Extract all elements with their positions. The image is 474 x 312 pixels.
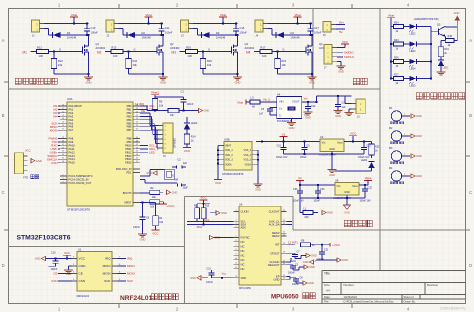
svg-text:R22: R22 (375, 145, 380, 148)
svg-text:10: 10 (235, 258, 237, 260)
svg-text:5V+: 5V+ (339, 21, 344, 25)
svg-text:C33: C33 (320, 188, 325, 191)
header J6b 4pin swd (324, 45, 332, 65)
ground arrow (crystal) (153, 171, 157, 175)
svg-text:Vbat: Vbat (145, 13, 152, 17)
svg-text:C1: C1 (181, 90, 185, 94)
svg-text:IRQ: IRQ (105, 257, 111, 261)
section label dianyuan dianlu (344, 220, 350, 226)
svg-text:R12: R12 (37, 45, 42, 49)
svg-text:VDD_3: VDD_3 (225, 159, 233, 162)
svg-text:GND: GND (146, 171, 152, 175)
svg-text:1: 1 (235, 210, 236, 212)
svg-text:PB6: PB6 (127, 125, 132, 129)
svg-text:GND: GND (86, 80, 92, 84)
connector J4 (255, 20, 263, 32)
svg-text:VDDA: VDDA (225, 163, 232, 166)
svg-text:R23: R23 (394, 39, 399, 42)
net label 5V+ (336, 24, 345, 26)
svg-text:M1: M1 (23, 50, 28, 54)
svg-text:1uF: 1uF (259, 113, 264, 116)
wire v1 rail (256, 141, 320, 143)
svg-text:G: G (134, 48, 136, 52)
ground (mpu fsync) (227, 237, 234, 239)
svg-text:SCL: SCL (204, 218, 210, 222)
svg-text:PA14: PA14 (69, 157, 76, 161)
svg-text:GND: GND (329, 148, 335, 151)
svg-text:13: 13 (62, 115, 64, 117)
svg-text:PA9: PA9 (69, 140, 74, 144)
svg-text:VCC: VCC (200, 196, 206, 200)
svg-text:GND: GND (140, 237, 146, 241)
resistor R18 (445, 38, 454, 42)
svg-text:PB4: PB4 (127, 118, 132, 122)
svg-text:9: 9 (235, 254, 236, 256)
net label SWDIO (337, 51, 343, 53)
svg-text:29: 29 (62, 137, 64, 139)
capacitor C32 100uF (364, 185, 366, 189)
svg-text:RESV: RESV (272, 234, 280, 238)
svg-text:U4: U4 (277, 93, 281, 97)
resistor R10 pullup (201, 208, 206, 219)
svg-text:BOOT0: BOOT0 (123, 191, 132, 195)
svg-text:34: 34 (62, 154, 64, 156)
svg-text:GND: GND (204, 109, 210, 113)
svg-text:1uF: 1uF (342, 106, 347, 109)
ground (j3) (349, 108, 352, 110)
svg-text:VCC: VCC (64, 251, 70, 255)
svg-text:R24: R24 (394, 21, 399, 24)
svg-text:U1: U1 (78, 247, 82, 251)
svg-text:14: 14 (283, 278, 285, 280)
section label zhishideng qudong dianlu (416, 93, 422, 99)
svg-text:M4: M4 (53, 115, 57, 119)
net label CE (mcu) (140, 112, 148, 114)
svg-text:22: 22 (283, 223, 285, 225)
svg-text:GND: GND (416, 114, 422, 118)
svg-text:13: 13 (235, 276, 237, 278)
svg-text:VDD_2: VDD_2 (225, 154, 233, 157)
svg-text:GND: GND (79, 264, 87, 268)
svg-text:PB7: PB7 (127, 128, 132, 132)
svg-text:5V-: 5V- (339, 30, 343, 34)
svg-text:11: 11 (235, 263, 237, 265)
wire gate (105, 51, 111, 53)
ground arrow (hole M1) (411, 114, 415, 118)
svg-text:MPU6050: MPU6050 (271, 294, 299, 301)
svg-text:C-: C- (279, 115, 282, 118)
mcu pin BOOT0 (133, 192, 140, 194)
svg-text:GND: GND (221, 211, 227, 215)
svg-text:V1: V1 (298, 176, 302, 180)
svg-text:CLKIN: CLKIN (241, 210, 249, 214)
svg-text:D3: D3 (216, 31, 220, 35)
mcu left pins PA8-PA15 (60, 138, 67, 140)
capacitor C10 100nF (86, 24, 88, 29)
nrf right pins (112, 258, 118, 260)
wire emitter (444, 37, 446, 41)
svg-text:FTD: FTD (23, 177, 28, 180)
svg-text:PC15-OSC32_OUT: PC15-OSC32_OUT (69, 181, 92, 185)
svg-text:PC14-OSC32_IN: PC14-OSC32_IN (69, 178, 89, 182)
svg-text:VDD_1: VDD_1 (225, 149, 233, 152)
svg-text:100: 100 (113, 54, 118, 58)
resistor R22 (371, 142, 373, 145)
svg-text:PB13: PB13 (125, 154, 132, 158)
svg-text:50: 50 (136, 154, 138, 156)
resistor R11 10k (128, 52, 130, 59)
svg-text:G: G (283, 48, 285, 52)
ground (ep) (295, 281, 297, 283)
svg-text:PA1: PA1 (69, 107, 74, 111)
ground (led1) (437, 71, 446, 73)
svg-text:PB5: PB5 (127, 121, 132, 125)
ground arrow (hole M2) (411, 134, 415, 138)
resistor R23 1k (390, 43, 392, 45)
svg-text:24: 24 (283, 210, 285, 212)
svg-text:D: D (2, 263, 5, 268)
mosfet Q3 AO3402 (237, 35, 239, 46)
svg-text:VCC: VCC (25, 148, 31, 152)
svg-text:INT: INT (275, 243, 280, 247)
svg-text:GPS06C: GPS06C (173, 138, 177, 148)
svg-text:Size: Size (324, 283, 330, 287)
svg-text:30: 30 (62, 140, 64, 142)
nrf right net labels (118, 258, 127, 260)
svg-text:R18: R18 (448, 35, 453, 38)
capacitor C11 100nF (161, 24, 163, 29)
wire source to ground (203, 73, 238, 75)
svg-text:CSDN @Nihil-Py: CSDN @Nihil-Py (440, 306, 466, 310)
svg-text:GND: GND (329, 173, 335, 177)
svg-text:GND: GND (305, 115, 311, 119)
svg-text:PA2: PA2 (69, 111, 74, 115)
wire gps reg rail (300, 184, 335, 186)
svg-text:GND: GND (344, 191, 350, 194)
svg-text:7: 7 (235, 245, 236, 247)
svg-text:PD0-OSC_IN: PD0-OSC_IN (116, 167, 132, 171)
ground port (row2) (346, 198, 348, 205)
capacitor C3 (177, 184, 179, 187)
svg-text:R26: R26 (394, 56, 399, 59)
wire gnd row1 (284, 153, 365, 155)
svg-text:4pF: 4pF (183, 162, 188, 165)
svg-text:100uF 16V: 100uF 16V (293, 201, 305, 203)
svg-text:C32: C32 (368, 186, 373, 189)
svg-text:B: B (469, 113, 472, 118)
wire Vbat rail (44, 23, 89, 25)
svg-text:PA10: PA10 (69, 143, 76, 147)
resistor R6 10k (152, 99, 158, 110)
svg-text:PB10: PB10 (125, 143, 132, 147)
diode D3 1N4148 (201, 32, 203, 38)
svg-text:File:: File: (324, 300, 329, 304)
svg-text:MISO: MISO (103, 264, 112, 268)
svg-text:GND: GND (454, 11, 460, 15)
wire Vbat rail (119, 23, 164, 25)
resistor R8 (301, 243, 311, 247)
mpu CPOUT cap C7 (287, 252, 296, 254)
svg-text:20: 20 (136, 111, 138, 113)
svg-text:IRQ: IRQ (127, 257, 133, 261)
svg-text:GND: GND (309, 80, 315, 84)
capacitor C33 100nF (317, 185, 319, 191)
ground arrow (hole M3) (411, 154, 415, 158)
svg-text:R16: R16 (186, 45, 191, 49)
section partition lines (9, 88, 381, 90)
svg-text:R13: R13 (112, 45, 117, 49)
svg-text:SWDIO: SWDIO (344, 50, 354, 54)
svg-text:1N4148: 1N4148 (291, 36, 301, 40)
svg-text:100uF: 100uF (300, 157, 307, 159)
svg-text:R10: R10 (58, 59, 63, 63)
svg-text:REGOUT: REGOUT (268, 263, 280, 267)
svg-text:Vin: Vin (337, 184, 341, 188)
resistor R21 10k (277, 52, 279, 59)
resistor R24 1k (391, 26, 394, 28)
svg-text:NC: NC (241, 258, 245, 262)
svg-text:PA7: PA7 (69, 128, 74, 132)
svg-text:Vgps: Vgps (365, 176, 372, 180)
svg-text:8M: 8M (175, 178, 178, 181)
mpu6050 body U6 (239, 206, 281, 285)
svg-text:VSSA: VSSA (245, 163, 252, 166)
svg-text:PA5: PA5 (69, 121, 74, 125)
svg-text:R14: R14 (191, 134, 196, 138)
svg-text:+VCC: +VCC (332, 243, 341, 247)
svg-text:GND: GND (235, 80, 241, 84)
svg-text:PA13: PA13 (69, 154, 76, 158)
wire gate (254, 51, 260, 53)
svg-text:CE: CE (141, 109, 145, 113)
connector J3 (181, 20, 189, 32)
svg-text:GND: GND (309, 265, 315, 269)
capacitor C14 (335, 104, 341, 106)
svg-text:GND: GND (160, 80, 166, 84)
svg-text:D1: D1 (67, 31, 71, 35)
svg-text:LED: LED (149, 151, 156, 155)
svg-text:35: 35 (62, 158, 64, 160)
resistor R12 100 (37, 50, 49, 54)
svg-text:R6: R6 (159, 99, 163, 103)
svg-text:D2: D2 (142, 31, 146, 35)
svg-text:LED4: LED4 (361, 159, 368, 162)
u3b right pins (252, 149, 258, 151)
svg-text:LED6(M4BT3733LT00): LED6(M4BT3733LT00) (414, 18, 439, 21)
svg-text:Drawn By:: Drawn By: (404, 300, 416, 304)
svg-text:CE: CE (53, 272, 57, 276)
svg-text:LED3: LED3 (410, 50, 417, 53)
svg-text:100nF: 100nF (51, 268, 59, 271)
svg-text:GND: GND (172, 191, 178, 195)
svg-text:Q3: Q3 (245, 42, 249, 46)
resistor R27 1k (390, 77, 392, 79)
led LED2 (410, 24, 417, 29)
svg-text:AD0: AD0 (241, 225, 247, 229)
svg-text:100: 100 (188, 54, 193, 58)
svg-text:100nF: 100nF (165, 31, 173, 35)
nrf left pins (72, 258, 78, 260)
svg-text:A: A (2, 38, 5, 43)
svg-text:10/26/2022: 10/26/2022 (344, 295, 358, 299)
ground (motor driver) (308, 76, 317, 78)
svg-text:SWCLK: SWCLK (344, 55, 354, 59)
svg-text:100: 100 (262, 54, 267, 58)
svg-text:R11: R11 (133, 59, 138, 63)
svg-text:10k: 10k (133, 63, 138, 67)
svg-text:PB0: PB0 (127, 104, 132, 108)
connector J2 (106, 20, 114, 32)
led LED3 (410, 41, 417, 46)
wire R6 to C1 top (155, 96, 184, 98)
svg-text:100nF: 100nF (206, 281, 213, 284)
wire led to collector rail (417, 61, 432, 63)
svg-text:VCC: VCC (184, 149, 191, 153)
svg-text:12 INT1: 12 INT1 (288, 241, 298, 245)
svg-text:Title: Title (324, 271, 330, 275)
led rail (390, 27, 392, 79)
ground (c12) (304, 111, 313, 113)
svg-text:GND: GND (289, 109, 294, 111)
svg-text:100nF: 100nF (314, 31, 322, 35)
wire motor terminal (193, 28, 198, 30)
svg-text:PA4: PA4 (69, 118, 74, 122)
svg-text:M2: M2 (97, 50, 102, 54)
svg-text:21: 21 (283, 232, 285, 234)
svg-text:MOSI: MOSI (50, 128, 58, 132)
svg-text:LED4: LED4 (410, 68, 417, 71)
svg-text:VSS_1: VSS_1 (244, 149, 252, 152)
svg-text:CSN: CSN (51, 279, 57, 283)
svg-text:Q2: Q2 (170, 42, 174, 46)
wire nrf vcc row (46, 258, 72, 260)
ground (cpout) (306, 253, 310, 257)
title block (322, 270, 466, 272)
svg-text:Vout: Vout (337, 141, 343, 145)
capacitor C12 (307, 102, 309, 107)
svg-text:PB3: PB3 (127, 114, 132, 118)
ground (mpu vdd cap) (197, 276, 201, 280)
wire gate (180, 51, 186, 53)
led LED3 (186, 117, 188, 123)
svg-text:Vbat: Vbat (71, 13, 78, 17)
svg-text:Vin_5: Vin_5 (263, 97, 271, 101)
svg-text:46: 46 (136, 140, 138, 142)
svg-text:PB1: PB1 (127, 107, 132, 111)
svg-text:M4: M4 (246, 50, 251, 54)
wire u3b right rail (257, 150, 259, 184)
svg-text:100nF: 100nF (240, 31, 248, 35)
resistor R10 10k (53, 52, 55, 59)
resistor R4 10k (153, 216, 159, 226)
svg-text:Sheet of: Sheet of (404, 295, 414, 299)
capacitor C6 (vlogic) (287, 261, 292, 263)
ground (5v row) (331, 154, 333, 167)
svg-text:NC: NC (241, 244, 245, 248)
svg-text:17: 17 (62, 129, 64, 131)
wire to J3 connector (316, 96, 318, 102)
mpu INT wire (287, 244, 296, 246)
svg-text:4: 4 (235, 226, 236, 228)
svg-text:NC: NC (241, 249, 245, 253)
svg-text:Vbat: Vbat (294, 13, 301, 17)
gps header J6 (163, 123, 173, 153)
ground (uart header) (31, 159, 35, 163)
mcu pin NRST (133, 202, 140, 204)
ground (u3b) (254, 183, 263, 185)
ground (swd header) (337, 61, 341, 63)
svg-text:CLKOUT: CLKOUT (269, 210, 280, 214)
wires to right caps cluster (321, 245, 323, 252)
svg-text:+VCC: +VCC (167, 204, 176, 208)
svg-text:GND: GND (416, 134, 422, 138)
svg-text:15: 15 (62, 122, 64, 124)
svg-text:3: 3 (235, 223, 236, 225)
wires mcu to gps header (140, 112, 150, 114)
svg-text:VSS_2: VSS_2 (244, 154, 252, 157)
connector J1 (32, 20, 40, 32)
svg-text:R2: R2 (150, 186, 154, 190)
ground (motor driver) (233, 76, 242, 78)
svg-text:32: 32 (62, 147, 64, 149)
wire collector to top (444, 25, 446, 28)
svg-text:C: C (469, 190, 472, 195)
mcu right pins PB8-PB15 (133, 138, 140, 140)
svg-text:51: 51 (136, 158, 138, 160)
svg-text:FSYNC: FSYNC (241, 236, 250, 240)
svg-text:A4: A4 (326, 289, 330, 293)
svg-text:NC: NC (241, 253, 245, 257)
mosfet Q4 AO3402 (311, 35, 313, 46)
svg-text:R27: R27 (394, 73, 399, 76)
svg-text:G: G (208, 48, 210, 52)
svg-text:21: 21 (136, 115, 138, 117)
wire gate (31, 51, 37, 53)
led LED4 (410, 59, 417, 64)
svg-text:100: 100 (39, 54, 44, 58)
svg-text:GND: GND (190, 276, 196, 280)
svg-text:SCK: SCK (127, 279, 133, 283)
svg-text:Vbat: Vbat (388, 14, 394, 18)
svg-text:Revision: Revision (427, 283, 438, 287)
svg-text:100nF: 100nF (133, 226, 140, 229)
diode D2 1N4148 (126, 32, 128, 38)
svg-text:G: G (59, 48, 61, 52)
svg-text:GND: GND (311, 254, 317, 258)
svg-text:Vcc: Vcc (222, 272, 227, 276)
ground (nrst cap) (142, 224, 144, 234)
svg-text:R17: R17 (261, 45, 266, 49)
capacitor C15 100nF (235, 24, 237, 29)
wire led to collector rail (417, 26, 432, 28)
wire vgps out (359, 184, 368, 186)
wire motor terminal (119, 28, 124, 30)
wire Vbat rail (268, 23, 313, 25)
svg-text:C15: C15 (207, 268, 212, 271)
svg-text:PA15: PA15 (69, 161, 76, 165)
svg-text:PB11: PB11 (125, 147, 132, 151)
svg-text:600: 600 (305, 216, 310, 219)
svg-text:MOSI: MOSI (103, 272, 111, 276)
power port VCC (nrst) (154, 226, 156, 230)
resistor R14 1k (186, 129, 188, 134)
svg-text:2: 2 (62, 174, 63, 176)
svg-text:STM32F103C8T6: STM32F103C8T6 (67, 208, 90, 212)
svg-text:C16: C16 (51, 251, 56, 254)
header J5 2pin (323, 22, 331, 33)
svg-text:25: 25 (136, 129, 138, 131)
svg-text:NC: NC (241, 267, 245, 271)
